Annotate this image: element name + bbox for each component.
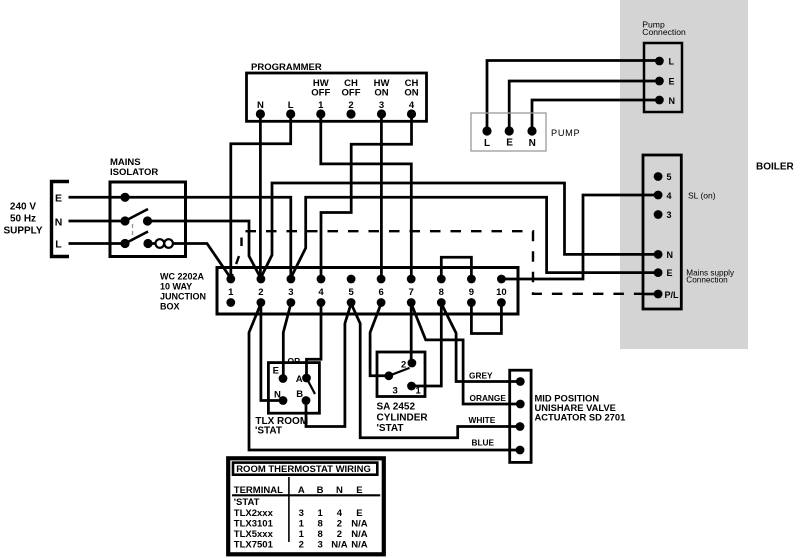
isolator L switch (120, 232, 152, 249)
wire junction terminal 3 to boiler E (291, 197, 658, 277)
table rows (234, 497, 274, 550)
table header box (233, 463, 377, 475)
svg-text:N/A: N/A (351, 518, 368, 529)
svg-text:N: N (274, 390, 281, 401)
supply label 240 V 50 Hz SUPPLY (3, 202, 42, 237)
mains isolator box (110, 182, 186, 257)
svg-text:10: 10 (496, 287, 507, 298)
svg-text:2: 2 (401, 360, 406, 371)
room stat switch arm (307, 378, 316, 394)
thermostat wiring table outer box (228, 458, 384, 554)
svg-text:OR: OR (288, 356, 301, 366)
junction box label (160, 272, 206, 312)
wire mains L fuse to junction terminal 1 (173, 244, 230, 278)
svg-text:8: 8 (439, 287, 444, 298)
svg-text:8: 8 (317, 518, 322, 529)
boiler P/L stub (644, 293, 658, 295)
svg-text:Connection: Connection (686, 276, 728, 285)
boiler terminal dots (654, 172, 663, 298)
svg-text:Connection: Connection (642, 27, 686, 37)
svg-text:3: 3 (288, 287, 293, 298)
svg-text:WC 2202A: WC 2202A (160, 272, 205, 282)
wire programmer HW OFF 1 to junction terminal 7 (321, 114, 412, 279)
svg-text:50 Hz: 50 Hz (10, 214, 36, 225)
svg-text:3: 3 (317, 539, 322, 550)
wire mains N from supply to isolator (69, 220, 123, 223)
svg-text:B: B (317, 485, 324, 496)
programmer terminal labels (257, 78, 419, 111)
cylinder stat dots (384, 359, 416, 391)
pump connection dots (655, 57, 664, 105)
supply bracket (52, 182, 70, 257)
table divider rule (288, 477, 290, 542)
room stat label (255, 416, 308, 437)
svg-text:SUPPLY: SUPPLY (3, 226, 42, 237)
svg-text:5: 5 (348, 287, 354, 298)
svg-text:1: 1 (317, 508, 323, 519)
valve wire labels (469, 370, 507, 447)
cylinder stat switch arm (389, 368, 410, 376)
wire junction terminal 3 to room stat E (283, 304, 291, 379)
svg-text:3: 3 (379, 100, 384, 111)
svg-text:L: L (288, 100, 294, 111)
pump box (471, 113, 546, 151)
pump connection label (642, 19, 686, 37)
svg-text:3: 3 (299, 508, 304, 519)
svg-text:CYLINDER: CYLINDER (377, 413, 429, 424)
wire junction terminal 2 to valve BLUE (249, 304, 520, 451)
svg-text:PUMP: PUMP (551, 128, 580, 138)
svg-text:ON: ON (404, 88, 418, 99)
table header rule (232, 494, 380, 496)
svg-text:2: 2 (348, 100, 353, 111)
wire junction terminal 6 to cylinder stat common (370, 304, 389, 376)
wire jumper terminals 8-9 top (441, 257, 471, 279)
svg-text:2: 2 (258, 287, 263, 298)
valve box (510, 370, 531, 462)
isolator switch link dashed (132, 224, 134, 241)
svg-text:L: L (55, 239, 62, 251)
svg-text:2: 2 (337, 518, 342, 529)
wire pump N to pump connection N (532, 100, 659, 131)
svg-text:TLX3101: TLX3101 (234, 518, 274, 529)
svg-text:GREY: GREY (469, 370, 493, 380)
wire jumper terminals 9-10 bottom (471, 303, 501, 334)
svg-text:ACTUATOR SD 2701: ACTUATOR SD 2701 (535, 412, 626, 423)
svg-text:SA 2452: SA 2452 (377, 402, 416, 413)
svg-text:'STAT: 'STAT (377, 423, 404, 434)
svg-text:5: 5 (667, 172, 672, 182)
wire junction terminal 10 to boiler SL 4 (501, 195, 658, 279)
wire junction terminal 7 to cylinder stat 2 (410, 303, 413, 364)
svg-text:PROGRAMMER: PROGRAMMER (251, 62, 322, 73)
svg-text:ISOLATOR: ISOLATOR (110, 167, 158, 178)
svg-text:TERMINAL: TERMINAL (234, 485, 283, 496)
boiler mains supply connection label (686, 269, 735, 285)
svg-text:N: N (669, 96, 676, 106)
wire programmer HW ON 3 to junction terminal 6 (380, 114, 383, 279)
wire junction terminal 8 to cylinder stat 1 (412, 303, 442, 387)
svg-text:8: 8 (317, 529, 322, 540)
wire pump E to pump connection E (509, 81, 659, 131)
svg-text:WHITE: WHITE (469, 415, 496, 425)
mains isolator label (110, 157, 158, 178)
wire programmer L to junction terminal 1 (231, 114, 291, 279)
svg-text:N: N (529, 138, 536, 149)
svg-text:2: 2 (337, 529, 342, 540)
svg-text:1: 1 (318, 100, 324, 111)
svg-text:1: 1 (416, 386, 422, 397)
svg-text:10 WAY: 10 WAY (160, 282, 192, 292)
svg-text:N: N (257, 100, 264, 111)
svg-text:1: 1 (299, 518, 305, 529)
isolator N switch (120, 209, 152, 226)
svg-text:N/A: N/A (351, 539, 368, 550)
pump connection box (644, 43, 682, 112)
svg-text:BOX: BOX (160, 302, 180, 312)
wire programmer CH ON 4 to junction terminal 4 (321, 114, 412, 279)
svg-text:1: 1 (299, 529, 305, 540)
junction box (217, 268, 518, 315)
svg-text:P/L: P/L (665, 290, 680, 300)
boiler terminal labels (665, 172, 680, 300)
svg-text:N: N (336, 485, 343, 496)
wire junction terminal 5 to room stat B (306, 304, 351, 427)
svg-text:4: 4 (667, 191, 672, 201)
svg-text:L: L (484, 138, 490, 149)
junction terminal dots and numbers 1-10 (226, 275, 506, 307)
room stat box (268, 363, 319, 414)
svg-text:ON: ON (374, 88, 388, 99)
svg-text:TLX7501: TLX7501 (234, 539, 274, 550)
svg-text:A: A (296, 374, 303, 385)
svg-text:9: 9 (469, 287, 474, 298)
table column header row (234, 485, 363, 496)
wire junction terminal 2 to room stat N (261, 303, 283, 401)
wire junction terminal 7 to valve ORANGE (411, 304, 520, 405)
wire junction terminal 8 to valve GREY (441, 304, 520, 382)
svg-text:N: N (667, 250, 674, 260)
svg-text:E: E (506, 137, 513, 148)
wire junction terminal 2 to boiler N (261, 183, 658, 278)
svg-text:4: 4 (318, 287, 324, 298)
wire junction terminal 5 to valve WHITE (351, 304, 520, 438)
svg-text:OFF: OFF (311, 88, 330, 99)
svg-text:4: 4 (337, 508, 343, 519)
room stat terminal labels (273, 365, 304, 400)
wire pump L to pump connection L (487, 61, 659, 132)
svg-text:N/A: N/A (331, 539, 348, 550)
svg-text:A: A (298, 485, 305, 496)
svg-text:'STAT: 'STAT (255, 426, 282, 437)
svg-text:E: E (273, 365, 279, 376)
svg-text:7: 7 (409, 287, 414, 298)
svg-text:2: 2 (299, 539, 304, 550)
programmer terminal dots (256, 109, 416, 118)
svg-text:ROOM THERMOSTAT WIRING: ROOM THERMOSTAT WIRING (236, 464, 371, 475)
programmer box (247, 73, 427, 121)
svg-text:BOILER: BOILER (756, 162, 795, 173)
svg-text:TLX5xxx: TLX5xxx (234, 529, 274, 540)
cylinder stat box (377, 352, 425, 397)
svg-text:E: E (669, 77, 675, 87)
svg-text:E: E (356, 508, 362, 519)
valve label (535, 393, 626, 423)
boiler grey zone (620, 0, 748, 349)
dashed link wire to boiler P/L (232, 231, 658, 294)
svg-text:ORANGE: ORANGE (470, 393, 507, 403)
svg-text:L: L (669, 57, 675, 67)
wire junction terminal 4 to room stat A (307, 303, 322, 379)
pump terminal labels (484, 137, 536, 148)
cylinder stat terminal labels (393, 360, 422, 397)
supply terminal labels E N L (55, 193, 63, 251)
boiler terminal box (643, 155, 681, 309)
svg-text:OFF: OFF (342, 88, 361, 99)
svg-text:3: 3 (667, 210, 672, 220)
wire mains E from supply to junction terminal 3 (69, 197, 291, 275)
room stat terminal dots (279, 374, 311, 405)
svg-text:BLUE: BLUE (472, 437, 495, 447)
svg-text:4: 4 (409, 100, 415, 111)
isolator E dot (120, 193, 129, 202)
svg-text:3: 3 (393, 386, 398, 397)
wire programmer N to junction terminal 2 (259, 114, 262, 279)
fuse circles on L (156, 239, 173, 248)
svg-text:'STAT: 'STAT (234, 497, 260, 508)
svg-text:E: E (55, 193, 62, 205)
svg-text:N: N (55, 217, 63, 229)
pump connection terminal labels (669, 57, 676, 106)
svg-text:TLX2xxx: TLX2xxx (234, 508, 274, 519)
svg-text:240 V: 240 V (10, 202, 36, 213)
svg-text:N/A: N/A (351, 529, 368, 540)
svg-text:E: E (356, 485, 362, 496)
svg-text:E: E (667, 268, 673, 278)
cylinder stat label (377, 402, 429, 435)
svg-text:1: 1 (228, 287, 234, 298)
svg-text:SL (on): SL (on) (688, 190, 716, 200)
svg-text:JUNCTION: JUNCTION (160, 292, 206, 302)
svg-text:6: 6 (378, 287, 383, 298)
pump terminal dots (482, 126, 536, 135)
valve terminal dots (516, 377, 525, 454)
svg-text:B: B (296, 389, 303, 400)
wire mains L supply to fuse (69, 242, 123, 245)
